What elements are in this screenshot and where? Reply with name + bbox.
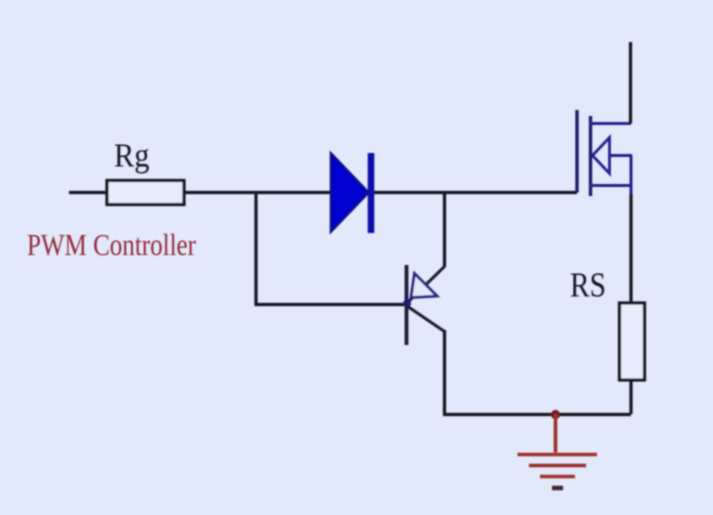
wire: junction down to transistor base	[256, 193, 406, 305]
wire: source/body vertical down to RS	[630, 156, 633, 197]
ground bar 4	[552, 486, 563, 491]
transistor Q1 emitter line	[407, 267, 445, 304]
ground stem	[554, 414, 558, 453]
MOSFET M1 source tab	[589, 184, 632, 187]
diode D1 triangle	[331, 154, 369, 232]
wire: ground rail horizontal	[443, 413, 631, 416]
node C junction dot on ground rail	[551, 410, 560, 419]
transistor Q1 collector line	[407, 306, 445, 332]
svg-text:PWM Controller: PWM Controller	[27, 227, 197, 262]
wire: PWM controller output to gate (main horizontal)	[69, 191, 577, 194]
svg-text:RS: RS	[570, 266, 606, 305]
ground bar 1	[518, 453, 598, 457]
wire: junction down to transistor emitter	[443, 193, 446, 268]
MOSFET M1 gate bar	[575, 110, 578, 193]
svg-text:Rg: Rg	[114, 138, 150, 175]
transistor Q1 base bar	[405, 265, 409, 345]
wire: RS bottom to ground rail	[629, 380, 632, 414]
ground bar 3	[540, 475, 575, 479]
MOSFET M1 body arrow	[593, 138, 610, 174]
ground bar 2	[529, 464, 586, 468]
wire: collector down to ground rail	[443, 330, 446, 414]
MOSFET M1 drain tab	[589, 122, 631, 125]
resistor Rg	[107, 181, 184, 205]
transistor Q1 base junction blob	[403, 300, 411, 308]
transistor Q1 emitter arrow	[411, 274, 437, 298]
MOSFET M1 middle tab	[609, 154, 632, 157]
resistor RS	[620, 303, 645, 380]
wire: drain vertical up	[629, 42, 632, 124]
MOSFET M1 channel bar	[589, 116, 592, 196]
diode D1 cathode bar	[368, 153, 375, 233]
